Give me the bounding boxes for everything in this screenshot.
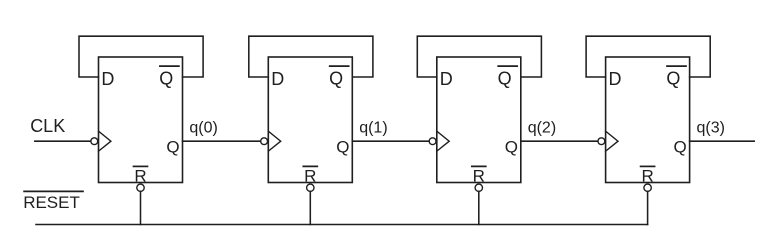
wire Qbar-to-D feedback loop U3: [417, 36, 541, 77]
svg-text:R: R: [134, 166, 146, 185]
wire Q output U2 (q(1)): [352, 140, 428, 142]
svg-text:D: D: [609, 69, 622, 89]
flip-flop body U1: [99, 57, 183, 183]
wire reset bubble U2 to RESET bus: [309, 191, 311, 224]
svg-text:Q: Q: [336, 137, 349, 156]
clock inversion bubble U2: [261, 138, 268, 145]
clock inversion bubble U1: [91, 138, 98, 145]
reset inversion bubble U2: [307, 184, 314, 191]
clock edge triangle U2: [268, 131, 280, 151]
svg-text:D: D: [440, 69, 453, 89]
svg-text:Q: Q: [498, 69, 512, 89]
svg-text:D: D: [101, 69, 114, 89]
flip-flop body U3: [437, 57, 521, 183]
svg-text:Q: Q: [159, 69, 173, 89]
reset inversion bubble U3: [475, 184, 482, 191]
clock edge triangle U3: [437, 131, 449, 151]
wire RESET bus: [36, 224, 648, 226]
svg-text:R: R: [641, 166, 653, 185]
svg-text:q(2): q(2): [528, 120, 556, 137]
wire Qbar-to-D feedback loop U4: [586, 36, 710, 77]
svg-text:q(0): q(0): [189, 120, 217, 137]
svg-text:q(3): q(3): [697, 120, 725, 137]
svg-text:D: D: [271, 69, 284, 89]
wire reset bubble U3 to RESET bus: [478, 191, 480, 224]
flip-flop body U4: [606, 57, 690, 183]
wire reset bubble U4 to RESET bus: [647, 191, 649, 224]
clock inversion bubble U3: [429, 138, 436, 145]
wire Q output U1 (q(0)): [183, 140, 261, 142]
svg-text:Q: Q: [674, 137, 687, 156]
svg-text:q(1): q(1): [359, 120, 387, 137]
svg-text:Q: Q: [666, 69, 680, 89]
svg-text:R: R: [304, 166, 316, 185]
wire Q output U3 (q(2)): [521, 140, 598, 142]
svg-text:Q: Q: [505, 137, 518, 156]
wire Qbar-to-D feedback loop U2: [249, 36, 373, 77]
svg-text:Q: Q: [329, 69, 343, 89]
wire Qbar-to-D feedback loop U1: [79, 36, 203, 77]
svg-text:CLK: CLK: [30, 116, 65, 136]
svg-text:Q: Q: [166, 137, 179, 156]
wire CLK to FF0 clock bubble: [35, 140, 91, 142]
clock edge triangle U4: [606, 131, 618, 151]
wire Q output U4 (q(3)): [690, 140, 755, 142]
svg-text:R: R: [473, 166, 485, 185]
flip-flop body U2: [268, 57, 352, 183]
clock inversion bubble U4: [598, 138, 605, 145]
clock edge triangle U1: [99, 131, 111, 151]
reset inversion bubble U4: [644, 184, 651, 191]
wire reset bubble U1 to RESET bus: [140, 191, 142, 224]
svg-text:RESET: RESET: [23, 193, 80, 212]
reset inversion bubble U1: [137, 184, 144, 191]
